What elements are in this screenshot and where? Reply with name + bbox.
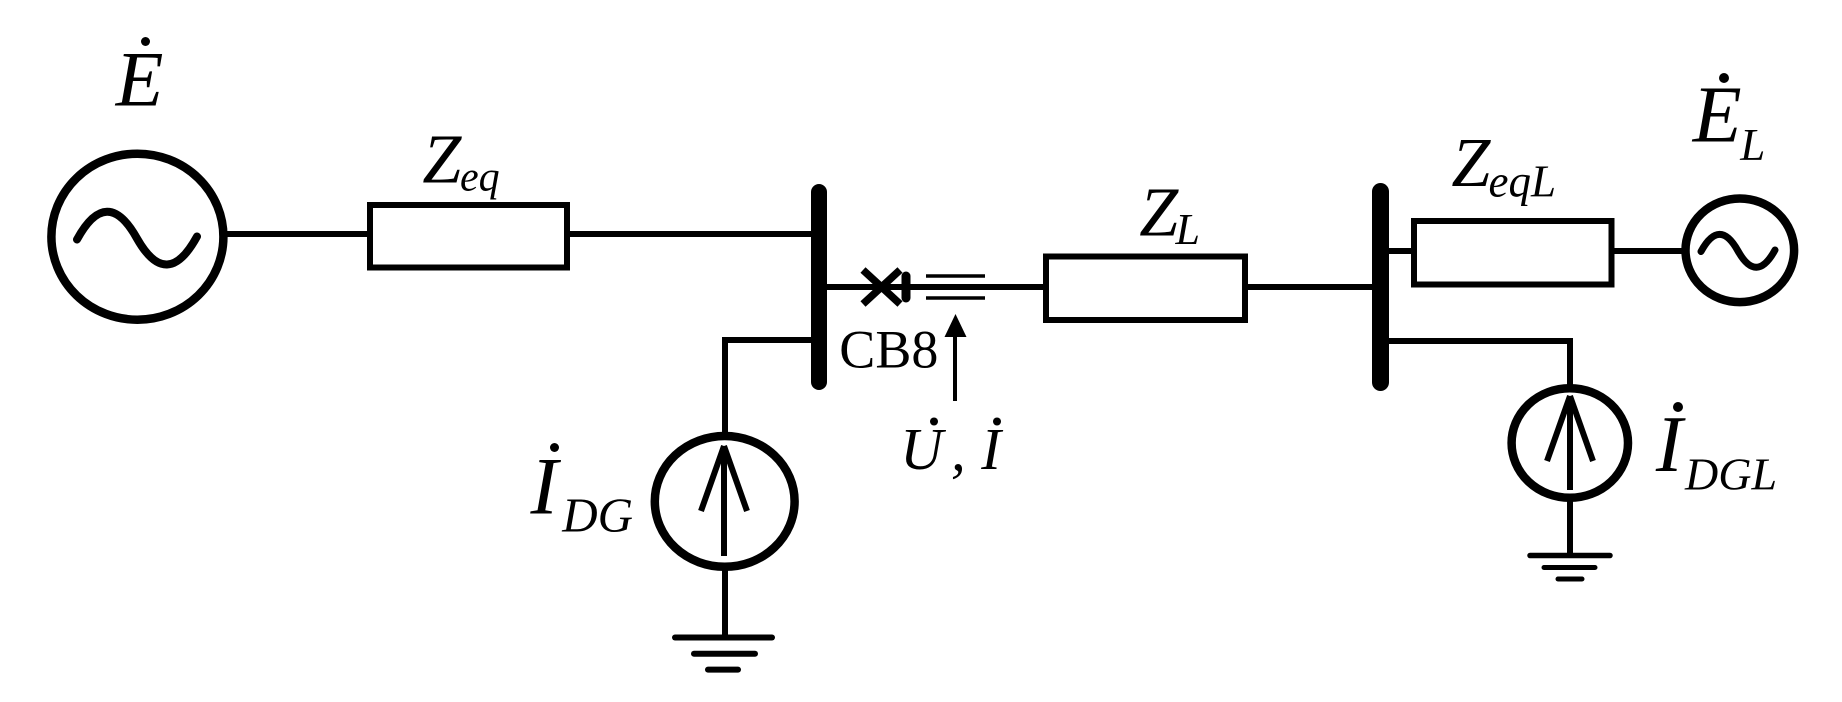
svg-text:Z: Z bbox=[1139, 174, 1179, 251]
svg-text:L: L bbox=[1175, 205, 1200, 254]
svg-text:eqL: eqL bbox=[1489, 157, 1557, 207]
svg-text:,: , bbox=[951, 417, 966, 483]
svg-text:L: L bbox=[1739, 120, 1765, 170]
svg-text:CB8: CB8 bbox=[839, 320, 938, 380]
svg-text:I: I bbox=[980, 416, 1003, 482]
svg-text:U: U bbox=[900, 416, 946, 482]
svg-text:Z: Z bbox=[422, 122, 462, 199]
svg-text:DG: DG bbox=[561, 487, 633, 542]
svg-text:I: I bbox=[1655, 401, 1686, 489]
svg-text:E: E bbox=[115, 36, 164, 123]
svg-text:E: E bbox=[1692, 72, 1742, 160]
svg-text:DGL: DGL bbox=[1684, 448, 1777, 499]
svg-text:eq: eq bbox=[460, 155, 500, 201]
svg-text:Z: Z bbox=[1451, 125, 1491, 202]
svg-text:I: I bbox=[530, 441, 562, 532]
